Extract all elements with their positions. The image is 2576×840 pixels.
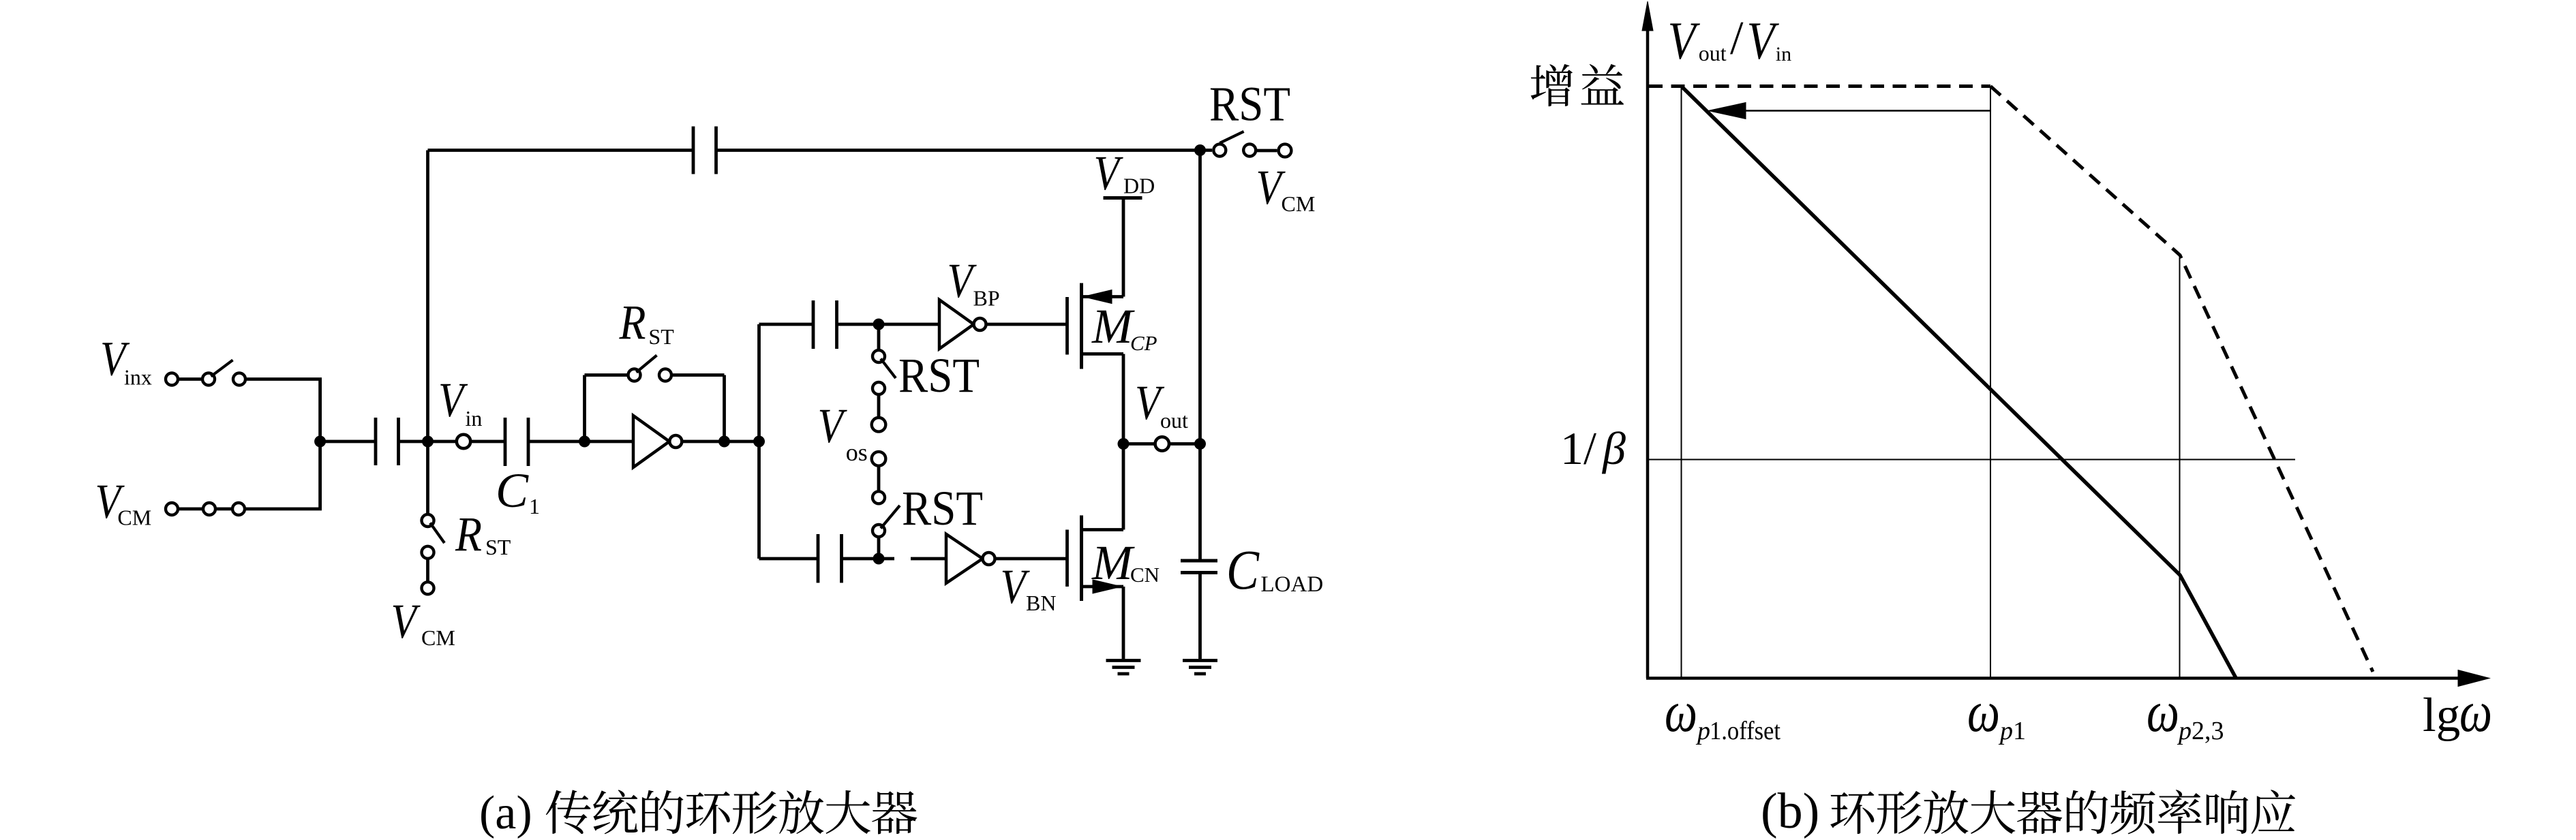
- svg-text:in: in: [466, 406, 483, 431]
- svg-text:ω: ω: [2147, 679, 2179, 744]
- svg-text:V: V: [818, 399, 847, 453]
- svg-text:V: V: [1668, 11, 1701, 70]
- svg-text:os: os: [846, 439, 868, 466]
- svg-text:out: out: [1699, 41, 1727, 65]
- svg-text:V: V: [438, 373, 468, 427]
- svg-text:DD: DD: [1123, 174, 1155, 198]
- svg-text:in: in: [1776, 43, 1791, 65]
- svg-text:ST: ST: [648, 324, 674, 349]
- svg-text:LOAD: LOAD: [1261, 572, 1324, 597]
- svg-text:C: C: [1226, 538, 1260, 601]
- svg-text:p: p: [1998, 717, 2013, 745]
- svg-text:1: 1: [2013, 717, 2026, 745]
- svg-text:2,3: 2,3: [2192, 717, 2224, 745]
- svg-text:BP: BP: [973, 286, 1000, 311]
- svg-text:inx: inx: [124, 365, 152, 390]
- svg-text:V: V: [1094, 146, 1123, 200]
- svg-text:V: V: [1747, 11, 1780, 70]
- svg-text:R: R: [619, 295, 646, 349]
- svg-text:V: V: [391, 594, 421, 649]
- svg-text:CP: CP: [1130, 331, 1157, 355]
- svg-text:(b): (b): [1761, 783, 1819, 839]
- svg-text:CM: CM: [421, 625, 455, 650]
- svg-text:p: p: [2177, 717, 2192, 745]
- svg-text:R: R: [455, 507, 482, 561]
- svg-text:ω: ω: [2459, 679, 2492, 744]
- svg-text:M: M: [1091, 535, 1135, 590]
- svg-text:RST: RST: [1209, 77, 1290, 131]
- svg-text:CM: CM: [1282, 191, 1316, 216]
- svg-text:CM: CM: [117, 505, 151, 530]
- svg-text:M: M: [1091, 299, 1135, 354]
- svg-text:CN: CN: [1130, 563, 1160, 587]
- svg-text:p: p: [1695, 717, 1710, 745]
- svg-text:lg: lg: [2423, 689, 2460, 742]
- svg-text:1: 1: [529, 494, 540, 518]
- svg-text:V: V: [948, 253, 977, 308]
- svg-text:RST: RST: [902, 481, 983, 535]
- svg-text:out: out: [1160, 408, 1188, 433]
- svg-text:(a): (a): [479, 787, 532, 839]
- svg-text:1/: 1/: [1560, 422, 1596, 474]
- svg-text:RST: RST: [898, 348, 980, 403]
- svg-text:ST: ST: [485, 535, 511, 559]
- svg-text:ω: ω: [1665, 679, 1697, 744]
- svg-text:1.offset: 1.offset: [1710, 717, 1781, 745]
- svg-text:BN: BN: [1026, 591, 1056, 615]
- svg-text:ω: ω: [1967, 679, 2000, 744]
- svg-text:β: β: [1601, 422, 1626, 474]
- svg-text:C: C: [496, 463, 529, 518]
- svg-text:/: /: [1730, 12, 1744, 65]
